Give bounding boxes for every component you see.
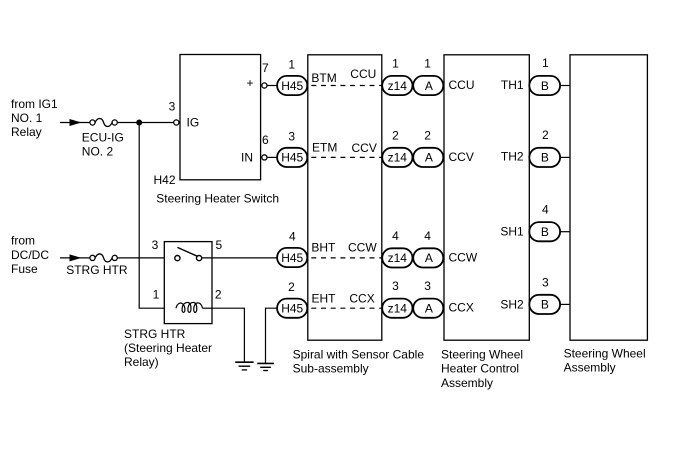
wire EHT dashed xyxy=(311,307,382,309)
svg-text:CCW: CCW xyxy=(348,241,377,255)
connector z14 pin 3 xyxy=(382,299,412,318)
svg-text:z14: z14 xyxy=(388,251,408,265)
svg-text:IG: IG xyxy=(187,116,200,130)
svg-text:4: 4 xyxy=(289,229,296,243)
connector B pin 1 xyxy=(529,76,560,95)
relay switch contacts xyxy=(175,256,180,261)
svg-text:B: B xyxy=(541,79,549,93)
relay coil xyxy=(176,302,202,312)
svg-text:Relay): Relay) xyxy=(124,355,159,369)
svg-text:TH1: TH1 xyxy=(501,78,524,92)
svg-text:Steering Wheel: Steering Wheel xyxy=(564,346,646,360)
svg-text:1: 1 xyxy=(288,58,295,72)
ground (relay coil) xyxy=(235,361,253,363)
svg-text:CCU: CCU xyxy=(449,78,475,92)
svg-text:H45: H45 xyxy=(281,302,303,316)
wire B1 to wheel assembly xyxy=(560,85,570,87)
wire BTM dashed xyxy=(311,85,382,87)
wire BHT dashed xyxy=(311,257,382,259)
wire pin7 to H45 xyxy=(267,85,278,87)
wire coil to relay pin 2 xyxy=(202,307,212,309)
svg-text:Assembly: Assembly xyxy=(441,376,493,390)
svg-text:z14: z14 xyxy=(388,302,408,316)
wire feed from IG1 relay with arrow xyxy=(60,122,90,124)
wire ground to H45 EHT xyxy=(266,308,278,363)
connector A pin 1 xyxy=(413,76,443,95)
svg-text:6: 6 xyxy=(262,133,269,147)
connector z14 pin 1 xyxy=(382,76,412,95)
svg-text:IN: IN xyxy=(241,151,253,165)
svg-text:CCV: CCV xyxy=(449,150,474,164)
svg-text:B: B xyxy=(541,151,549,165)
wire B3 to wheel assembly xyxy=(560,303,570,305)
svg-text:EHT: EHT xyxy=(312,291,337,305)
svg-text:STRG HTR: STRG HTR xyxy=(124,327,186,341)
svg-text:2: 2 xyxy=(392,128,399,142)
wire fuse to IG terminal xyxy=(117,122,173,124)
svg-text:B: B xyxy=(541,298,549,312)
connector H45 pin 4 (BHT) xyxy=(277,248,307,267)
svg-text:CCX: CCX xyxy=(349,292,374,306)
fuse STRG HTR xyxy=(90,255,95,260)
svg-text:Relay: Relay xyxy=(11,125,42,139)
svg-text:TH2: TH2 xyxy=(501,150,524,164)
svg-text:from IG1: from IG1 xyxy=(11,97,58,111)
svg-text:CCU: CCU xyxy=(350,67,376,81)
svg-text:7: 7 xyxy=(262,61,269,75)
svg-text:A: A xyxy=(425,151,433,165)
svg-text:Assembly: Assembly xyxy=(564,360,616,374)
svg-text:DC/DC: DC/DC xyxy=(11,248,49,262)
svg-text:BTM: BTM xyxy=(311,71,336,85)
svg-text:Steering Wheel: Steering Wheel xyxy=(441,347,523,361)
svg-text:3: 3 xyxy=(169,100,176,114)
svg-text:NO. 1: NO. 1 xyxy=(11,111,43,125)
svg-text:2: 2 xyxy=(542,128,549,142)
wire relay pin 2 to ground xyxy=(212,308,244,362)
connector z14 pin 2 xyxy=(382,148,412,167)
svg-text:Sub-assembly: Sub-assembly xyxy=(293,362,369,376)
svg-text:4: 4 xyxy=(542,203,549,217)
svg-text:2: 2 xyxy=(424,128,431,142)
svg-text:H45: H45 xyxy=(281,151,303,165)
connector z14 pin 4 xyxy=(382,248,412,267)
wire relay pin 5 to H45 xyxy=(202,257,278,259)
svg-text:5: 5 xyxy=(215,238,222,252)
svg-text:+: + xyxy=(246,76,253,90)
svg-text:H45: H45 xyxy=(281,79,303,93)
connector A pin 4 xyxy=(413,248,443,267)
connector H45 pin 3 (ETM) xyxy=(277,148,307,167)
svg-text:BHT: BHT xyxy=(311,240,336,254)
svg-text:Steering Heater Switch: Steering Heater Switch xyxy=(156,192,279,206)
svg-text:1: 1 xyxy=(392,56,399,70)
svg-text:2: 2 xyxy=(288,280,295,294)
terminal pin 7 xyxy=(262,83,267,88)
junction dot xyxy=(136,120,142,126)
svg-text:z14: z14 xyxy=(388,79,408,93)
svg-text:3: 3 xyxy=(288,129,295,143)
svg-text:STRG HTR: STRG HTR xyxy=(66,263,128,277)
svg-text:1: 1 xyxy=(542,56,549,70)
svg-text:1: 1 xyxy=(424,56,431,70)
heater control box xyxy=(444,55,529,340)
svg-text:3: 3 xyxy=(392,279,399,293)
terminal pin 6 xyxy=(262,155,267,160)
wire fuse to relay pin 3 xyxy=(117,257,175,259)
svg-text:A: A xyxy=(425,79,433,93)
svg-text:NO. 2: NO. 2 xyxy=(82,145,114,159)
svg-text:z14: z14 xyxy=(388,151,408,165)
terminal IG pin 3 xyxy=(174,120,179,125)
wire junction down to relay coil pin 1 xyxy=(139,123,176,309)
svg-text:A: A xyxy=(425,302,433,316)
svg-text:4: 4 xyxy=(392,229,399,243)
svg-text:A: A xyxy=(425,251,433,265)
svg-text:Heater Control: Heater Control xyxy=(441,362,519,376)
svg-text:H45: H45 xyxy=(281,251,303,265)
svg-text:2: 2 xyxy=(215,288,222,302)
wheel assembly box xyxy=(570,55,647,340)
svg-text:(Steering Heater: (Steering Heater xyxy=(124,341,212,355)
svg-text:ETM: ETM xyxy=(312,141,337,155)
wire B4 to wheel assembly xyxy=(560,231,570,233)
svg-text:Spiral with Sensor Cable: Spiral with Sensor Cable xyxy=(293,347,425,361)
svg-text:ECU-IG: ECU-IG xyxy=(82,131,124,145)
svg-text:from: from xyxy=(11,234,35,248)
svg-text:B: B xyxy=(541,225,549,239)
connector B pin 2 xyxy=(529,148,560,167)
fuse ECU-IG NO.2 xyxy=(90,120,95,125)
svg-text:1: 1 xyxy=(153,288,160,302)
connector B pin 4 xyxy=(529,222,560,241)
connector A pin 2 xyxy=(413,148,443,167)
svg-text:3: 3 xyxy=(152,238,159,252)
svg-text:4: 4 xyxy=(424,229,431,243)
svg-text:3: 3 xyxy=(424,279,431,293)
connector H45 pin 2 (EHT) xyxy=(277,299,307,318)
relay STRG HTR box xyxy=(164,242,212,324)
connector H45 pin 1 (BTM) xyxy=(277,76,307,95)
svg-text:Fuse: Fuse xyxy=(11,262,38,276)
wire ETM dashed xyxy=(311,156,382,158)
wire B2 to wheel assembly xyxy=(560,156,570,158)
ground (heater return) xyxy=(257,362,274,364)
svg-text:CCX: CCX xyxy=(449,301,474,315)
switch H42 box xyxy=(180,55,261,180)
svg-text:H42: H42 xyxy=(154,173,176,187)
svg-text:SH1: SH1 xyxy=(500,225,524,239)
wire feed from DC/DC fuse with arrow xyxy=(60,257,90,259)
svg-text:CCW: CCW xyxy=(449,250,478,264)
connector B pin 3 xyxy=(529,295,560,314)
spiral cable box xyxy=(308,55,382,340)
svg-text:SH2: SH2 xyxy=(500,298,524,312)
wire pin6 to H45 xyxy=(267,156,278,158)
svg-text:CCV: CCV xyxy=(352,141,377,155)
connector A pin 3 xyxy=(413,299,443,318)
svg-text:3: 3 xyxy=(542,275,549,289)
relay switch blade xyxy=(177,247,197,256)
